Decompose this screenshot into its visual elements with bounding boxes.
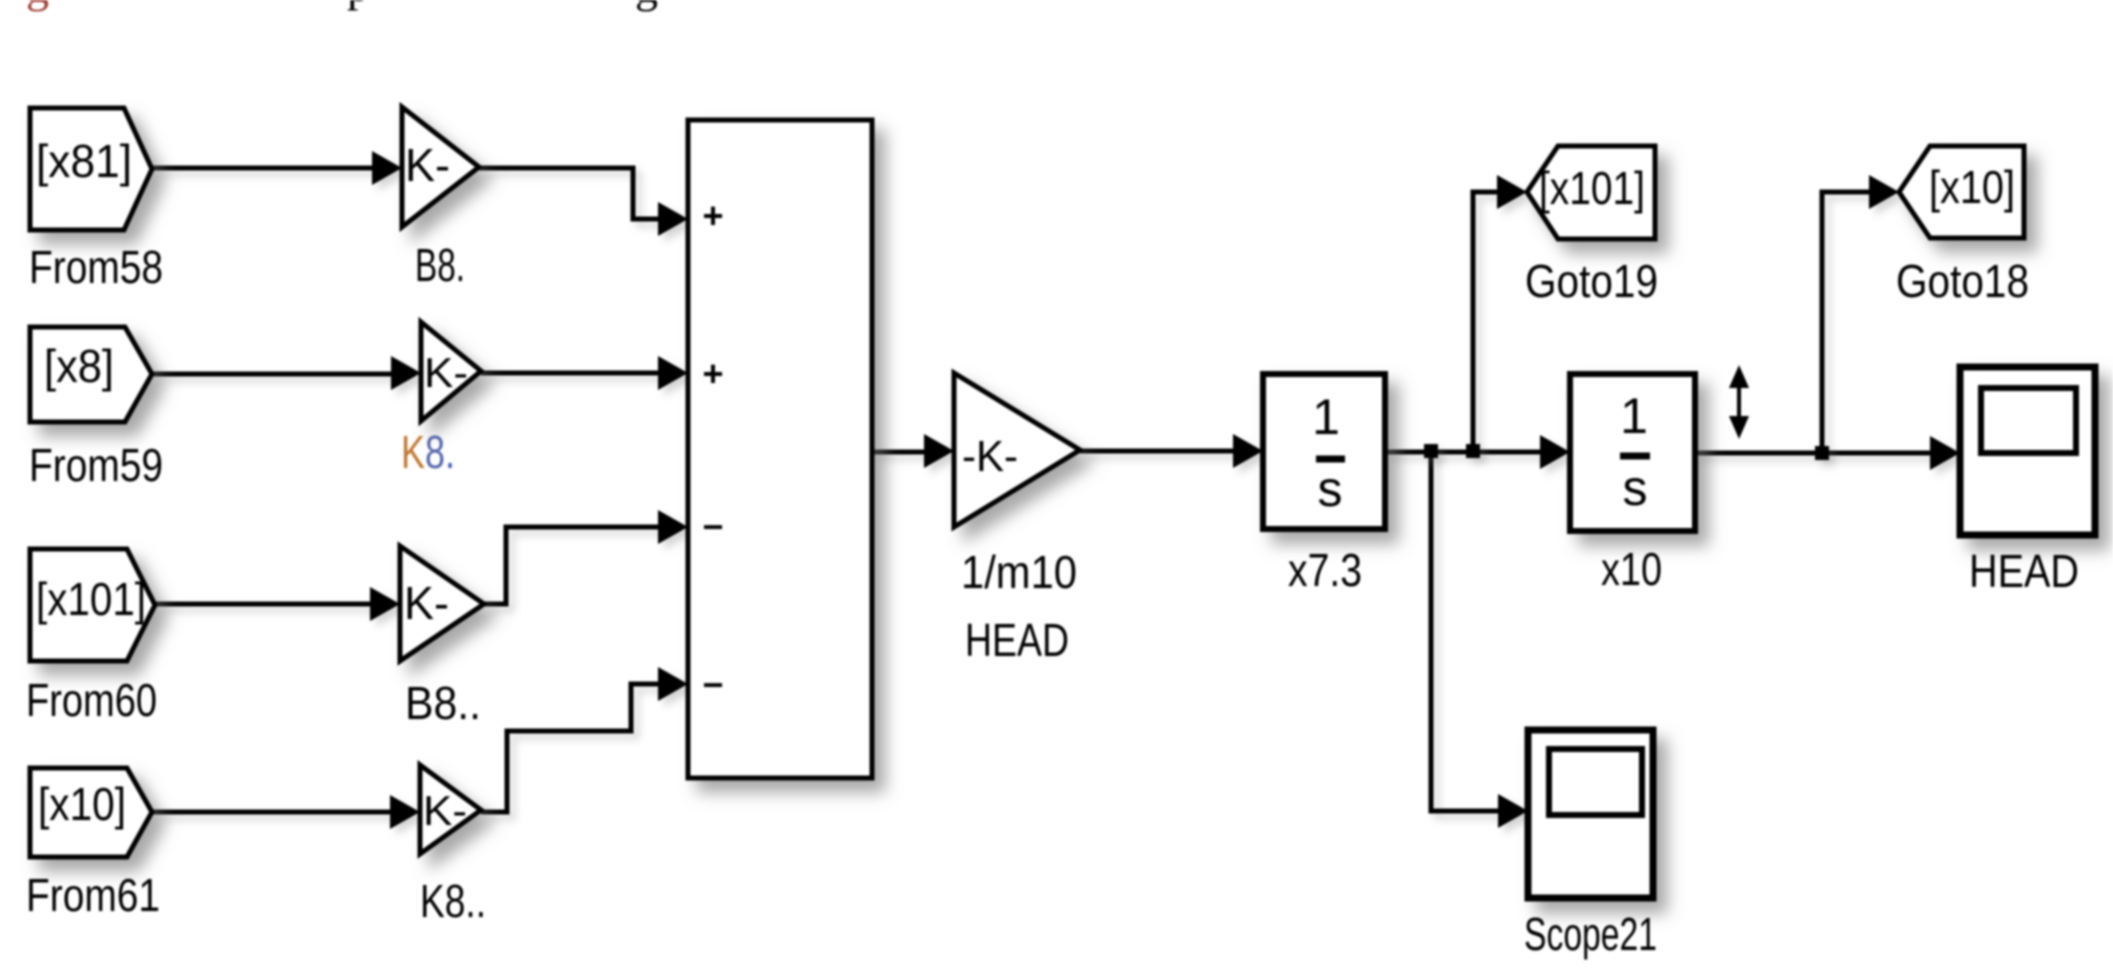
svg-text:From60: From60 (26, 674, 157, 726)
svg-text:1: 1 (1620, 388, 1648, 444)
svg-text:1/m10: 1/m10 (961, 546, 1077, 598)
svg-text:[x10]: [x10] (1929, 161, 2015, 213)
svg-text:x10: x10 (1601, 543, 1662, 595)
svg-text:K8.: K8. (401, 426, 455, 478)
svg-text:-K-: -K- (962, 432, 1018, 481)
svg-text:−: − (702, 664, 723, 705)
svg-text:[x81]: [x81] (36, 135, 132, 187)
svg-text:g: g (26, 0, 49, 12)
svg-text:Scope21: Scope21 (1524, 908, 1657, 960)
svg-text:−: − (702, 506, 723, 547)
svg-text:[x101]: [x101] (1539, 162, 1645, 214)
svg-text:1: 1 (1312, 389, 1340, 445)
svg-text:g: g (635, 0, 658, 12)
svg-text:Goto19: Goto19 (1525, 255, 1658, 307)
svg-text:+: + (702, 353, 723, 394)
svg-text:HEAD: HEAD (1969, 545, 2079, 597)
svg-text:B8..: B8.. (405, 677, 481, 729)
svg-text:From58: From58 (29, 241, 163, 293)
svg-text:K-: K- (404, 577, 449, 629)
svg-text:s: s (1318, 461, 1343, 517)
svg-text:B8.: B8. (415, 239, 465, 291)
svg-text:From61: From61 (26, 869, 160, 921)
svg-text:From59: From59 (29, 439, 163, 491)
svg-text:s: s (1623, 460, 1648, 516)
svg-text:+: + (702, 195, 723, 236)
svg-text:p: p (347, 0, 370, 11)
svg-text:[x10]: [x10] (38, 778, 126, 830)
svg-text:K8..: K8.. (420, 875, 486, 927)
svg-text:[x8]: [x8] (44, 340, 114, 392)
svg-text:K-: K- (405, 139, 450, 191)
svg-text:[x101]: [x101] (36, 573, 146, 625)
svg-text:Goto18: Goto18 (1896, 255, 2029, 307)
svg-text:x7.3: x7.3 (1288, 544, 1362, 596)
svg-text:HEAD: HEAD (965, 614, 1069, 666)
